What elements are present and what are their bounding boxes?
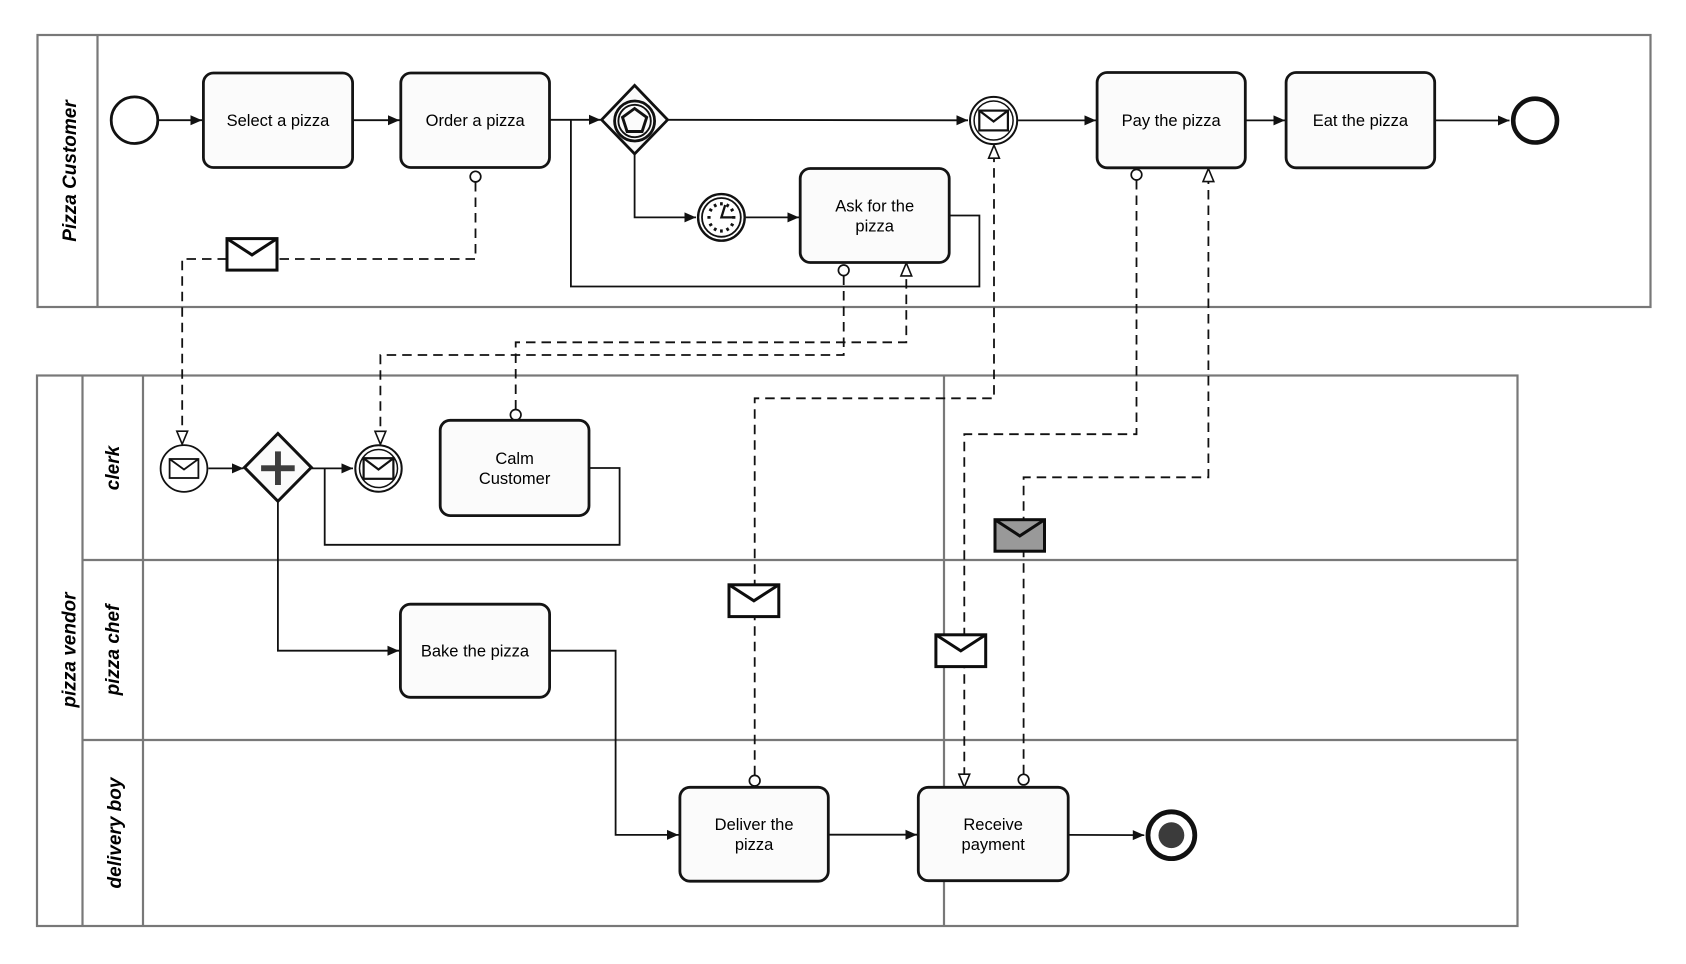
task Deliver the pizza <box>680 787 828 881</box>
task Select a pizza <box>203 73 352 168</box>
sequence flow: clerk start to parallel gateway <box>208 467 243 469</box>
svg-text:pizza chef: pizza chef <box>103 603 124 696</box>
start event (customer) <box>111 97 158 144</box>
sequence flow: Order a pizza to event gateway <box>550 119 601 121</box>
message flow source circle (Receive payment) <box>1018 774 1029 785</box>
message flow: Deliver the pizza to customer message catch event <box>755 159 994 776</box>
message flow: Ask for the pizza to clerk message catch event <box>380 276 843 432</box>
svg-text:pizza: pizza <box>855 217 894 235</box>
svg-text:pizza vendor: pizza vendor <box>60 591 81 709</box>
message envelope (money) <box>936 635 986 667</box>
task Receive payment <box>918 787 1068 880</box>
message flow target arrow (clerk catch event) <box>375 431 386 444</box>
sequence flow: Deliver the pizza to Receive payment <box>828 834 917 836</box>
task Ask for the pizza <box>800 169 949 263</box>
svg-text:Pay the pizza: Pay the pizza <box>1122 112 1222 130</box>
task Order a pizza <box>401 73 550 168</box>
sequence flow: gateway to message catch event <box>668 119 968 122</box>
pool Pizza Customer label divider <box>96 35 98 307</box>
svg-text:pizza: pizza <box>735 836 774 854</box>
message envelope (pizza) <box>729 585 779 617</box>
end event (customer) <box>1513 99 1557 143</box>
message flow source circle (Ask for the pizza) <box>838 265 849 276</box>
sequence flow: start to Select a pizza <box>159 119 202 121</box>
message flow target arrow (Ask for the pizza) <box>901 263 912 276</box>
pool pizza vendor label divider <box>81 376 83 927</box>
sequence flow: parallel gateway to clerk catch event <box>311 467 353 469</box>
task Pay the pizza <box>1097 73 1245 168</box>
sequence flow loop: Calm Customer back to catch inflow <box>325 468 620 545</box>
sequence flow: Bake the pizza to Deliver the pizza <box>550 651 679 835</box>
svg-text:delivery boy: delivery boy <box>105 776 126 888</box>
svg-text:Bake the pizza: Bake the pizza <box>421 642 530 660</box>
svg-text:Deliver the: Deliver the <box>715 816 794 834</box>
task Eat the pizza <box>1286 73 1435 168</box>
message catch event (customer) <box>970 97 1017 144</box>
message flow source circle (Pay the pizza) <box>1131 169 1142 180</box>
svg-text:payment: payment <box>962 836 1026 854</box>
message flow: Calm Customer to Ask for the pizza <box>516 276 907 410</box>
message envelope gray (receipt) <box>995 520 1045 552</box>
message flow source circle (Deliver the pizza) <box>749 775 760 786</box>
svg-text:Customer: Customer <box>479 470 551 488</box>
svg-text:clerk: clerk <box>103 444 124 490</box>
sequence flow: catch event to Pay the pizza <box>1018 119 1096 121</box>
sequence flow: parallel gateway to Bake the pizza <box>278 501 399 650</box>
pool pizza vendor lane label divider <box>142 376 144 927</box>
message envelope (pizza order) <box>227 239 277 271</box>
message start event (clerk) <box>161 445 208 492</box>
pool inner vertical border <box>943 376 945 927</box>
svg-text:Ask for the: Ask for the <box>835 197 914 215</box>
message flow source circle (Order a pizza) <box>470 171 481 182</box>
sequence flow: Select a pizza to Order a pizza <box>353 119 400 121</box>
svg-text:Pizza Customer: Pizza Customer <box>60 99 81 242</box>
sequence flow: gateway to timer event <box>635 154 696 218</box>
svg-text:Order a pizza: Order a pizza <box>426 112 526 130</box>
message flow target arrow (customer catch event) <box>989 145 1000 158</box>
message flow: Order a pizza to clerk message start event <box>182 182 475 431</box>
sequence flow: Pay the pizza to Eat the pizza <box>1245 119 1285 121</box>
message flow: Receive payment to Pay the pizza <box>1024 182 1209 775</box>
lane divider clerk / pizza chef <box>83 559 1518 561</box>
event-based gateway <box>602 85 668 153</box>
svg-text:Calm: Calm <box>495 450 534 468</box>
message flow: Pay the pizza to Receive payment <box>964 180 1136 774</box>
message catch event (clerk) <box>355 445 401 491</box>
end event (vendor) <box>1148 812 1195 859</box>
timer event <box>698 194 745 241</box>
message flow source circle (Calm Customer) <box>510 410 521 421</box>
svg-text:Select a pizza: Select a pizza <box>227 112 331 130</box>
message flow target arrow (Pay the pizza) <box>1203 169 1214 182</box>
sequence flow: Eat the pizza to end event <box>1435 119 1510 121</box>
parallel gateway <box>245 434 312 502</box>
message flow target arrow (Receive payment) <box>959 774 970 787</box>
sequence flow: timer to Ask for the pizza <box>746 216 799 218</box>
sequence flow loop: Ask for the pizza back to gateway inflow <box>571 120 980 287</box>
sequence flow: Receive payment to vendor end event <box>1068 834 1144 836</box>
svg-text:Eat the pizza: Eat the pizza <box>1313 112 1409 130</box>
message flow target arrow (clerk start event) <box>177 431 188 444</box>
task Calm Customer <box>440 420 589 515</box>
lane divider pizza chef / delivery boy <box>83 739 1518 741</box>
pool Pizza Customer <box>38 35 1651 307</box>
task Bake the pizza <box>400 604 549 697</box>
pool pizza vendor <box>37 376 1518 927</box>
svg-text:Receive: Receive <box>963 816 1023 834</box>
